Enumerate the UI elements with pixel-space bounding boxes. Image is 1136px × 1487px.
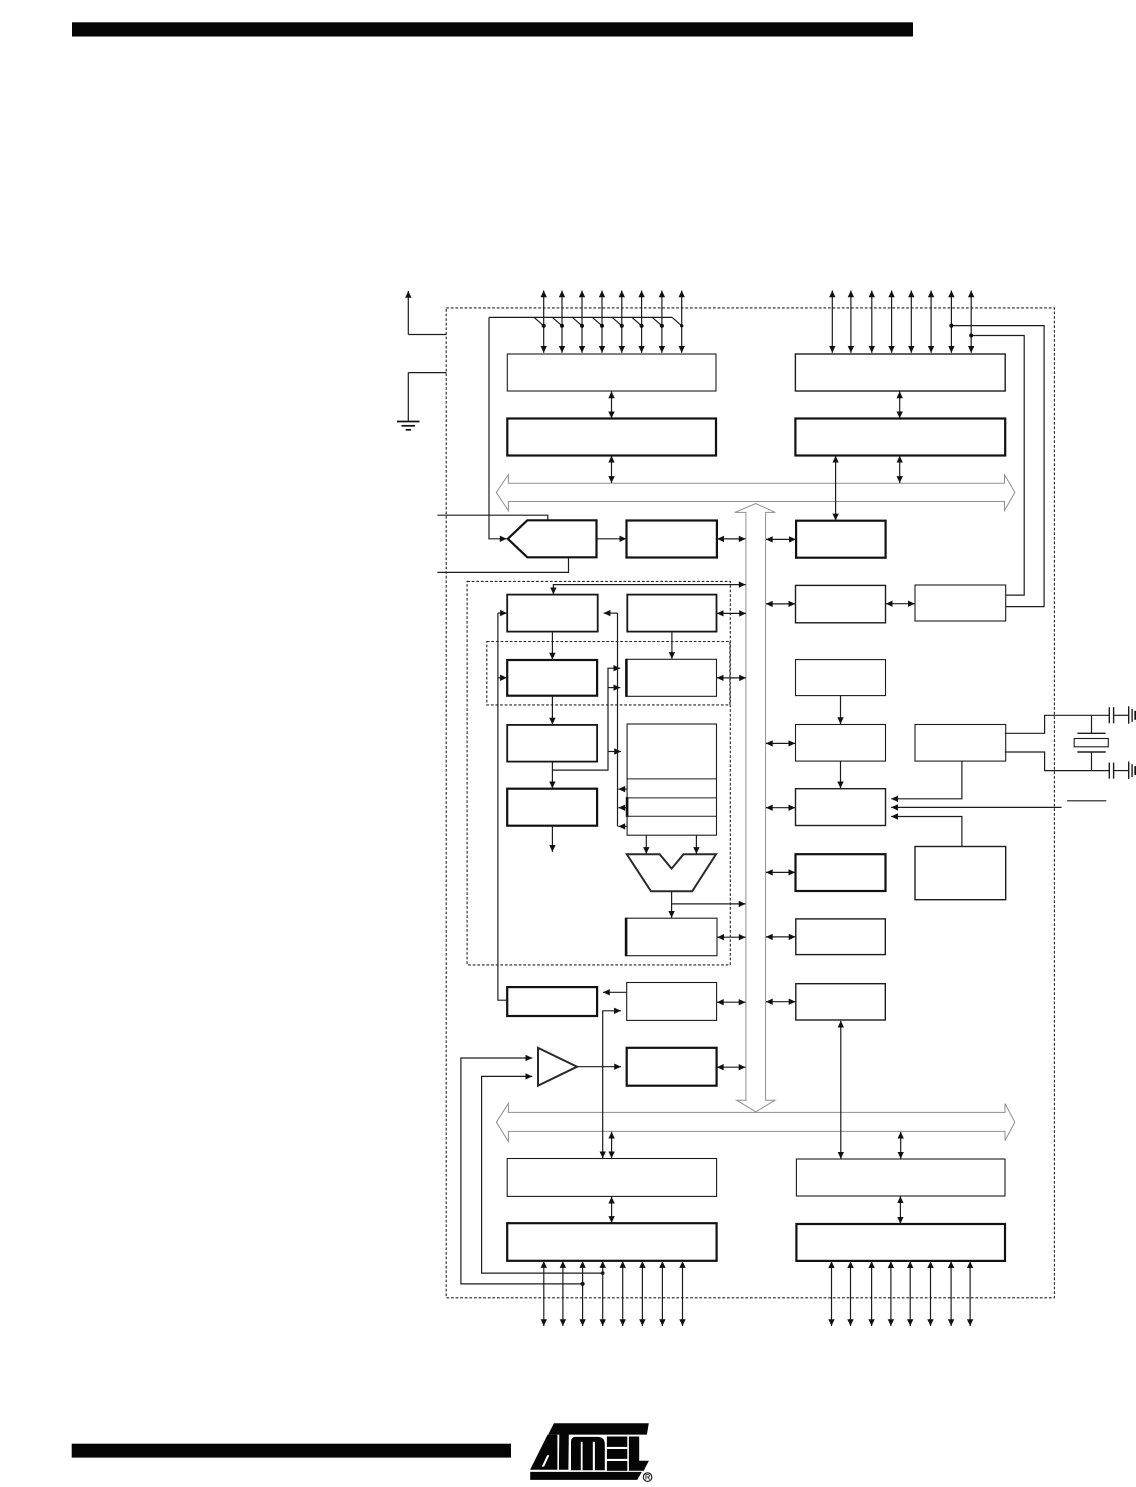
stack pointer to bus arrow [717,612,746,614]
Z register arrow [618,825,627,827]
program counter to bus wire [553,585,745,595]
RESET input wire [891,806,1061,808]
MCU status to MCU ctrl wire [891,817,962,847]
PORTA digital interface box [507,419,716,456]
oscillator (TOSC) box [915,585,1006,621]
ground for C1 [1128,706,1130,723]
PA0-PA7 pin arrows [543,291,545,353]
status register to bus arrow [717,936,745,938]
TOSC2 wire from PC7 [971,336,1024,596]
PORTA drivers/buffers box [507,354,716,391]
analog comparator triangle [538,1048,577,1086]
USART box [796,984,886,1020]
analog mux feed wire [489,317,507,538]
bus to USART arrow [766,1001,796,1003]
comparator output arrow [577,1066,621,1068]
internal SRAM box [626,659,716,696]
SPI to bus arrow [717,1001,746,1003]
PORTD drivers/buffers box [796,1224,1005,1261]
bus to watchdog arrow [766,742,795,744]
arrow into program flash left [498,677,507,679]
PC0-PC7 pin arrows [831,291,833,353]
MCU ctrl and timing box [796,789,886,826]
mux/adc to ADC interface arrow [597,538,626,540]
comparator positive input wire [461,1058,583,1284]
bus to PORTB interface arrow [611,1132,613,1159]
interrupt unit box [796,854,886,891]
AVCC pin arrow [408,334,446,336]
SPI to programming logic arrow [603,991,626,993]
registered trademark symbol [643,1473,652,1482]
timers/counters box [796,585,886,622]
EEPROM box [796,919,886,955]
analog ground wire [408,372,446,374]
SPI to PORTB wire [603,1011,621,1158]
ADC interface to bus arrow [717,538,745,540]
MUX and ADC chevron [508,520,597,557]
bus to EEPROM arrow [766,936,796,938]
bus to TWI arrow [766,538,796,540]
stack pointer box [627,595,716,632]
watchdog timer box [796,725,886,762]
direct addressing wire to SRAM [553,668,621,770]
flash to instruction register arrow [551,696,553,725]
bus to PORTD interface arrow [900,1132,902,1159]
instruction decoder box [507,789,597,826]
programming logic feedback wire [498,613,507,1000]
dashed memory region (flash/sram) [487,642,730,705]
program counter box [507,595,598,632]
comparator negative input wire [482,1076,603,1273]
instruction register box [507,725,597,762]
capacitor C1 [1108,707,1110,723]
USART to PORTD wire [840,1021,842,1159]
arrow into program counter right [604,612,618,614]
program counter to flash arrow [551,632,553,660]
crystal symbol [1091,715,1093,733]
bus to timers/counters arrow [766,603,795,605]
Y register arrow [618,807,627,809]
watchdog to MCU ctrl arrow [840,761,842,788]
comparator interface box [627,1048,717,1086]
control lines arrow [551,826,553,852]
PORTA drivers to interface arrow [611,391,613,418]
PORTC drivers to interface arrow [899,391,901,418]
ground symbol [397,421,420,423]
PORTD interface to drivers arrow [899,1196,901,1223]
MCU status register box [915,847,1006,900]
capacitor C2 [1108,763,1110,779]
ground for C2 [1128,762,1130,779]
X register arrow [618,788,627,790]
arrow into program counter left [498,612,507,614]
second arrow into SRAM left [608,687,620,689]
PORTB drivers/buffers box [507,1223,716,1261]
ALU to bus arrow [672,903,746,905]
XTAL1 wire [1005,715,1109,733]
top title bar [72,22,913,36]
ALU to status register arrow [671,892,673,918]
central vertical data bus (open arrow) [735,504,776,1112]
AREF stub wire [437,515,547,520]
TOSC1 wire from PC6 [951,326,1044,607]
registers to ALU arrows [645,836,647,854]
ADC interface box [627,521,717,558]
status register box [626,918,717,956]
programming logic box [507,987,597,1016]
bottom rule bar [72,1444,511,1458]
oscillator (XTAL) box [915,725,1006,762]
PB0-PB7 pin arrows [543,1261,545,1326]
program flash box [507,660,597,696]
Atmel logo A counter [542,1455,550,1466]
PORTD digital interface box [796,1159,1005,1196]
timers to oscillator arrow [886,603,915,605]
arrow into general registers left [608,751,621,753]
SRAM to bus arrow [717,677,746,679]
instruction register to decoder arrow [551,762,553,788]
ALU funnel [627,854,716,891]
comparator interface to bus arrow [717,1066,746,1068]
PORTA pickup junction dots [542,324,546,328]
RESET overline [1067,800,1106,802]
PORTA analog pickup line [489,316,672,318]
general purpose registers box [627,724,716,835]
PORTB digital interface box [507,1159,716,1197]
PORTC interface to data bus arrow [899,456,901,483]
8-bit data bus (upper horizontal open arrow) [496,475,1015,511]
internal oscillator box [796,660,886,696]
internal oscillator to watchdog arrow [840,696,842,724]
bus to interrupt unit arrow [766,871,795,873]
SPI box [627,983,717,1021]
oscillator to MCU ctrl wire [891,761,962,798]
Atmel logo [530,1423,649,1480]
XTAL2 wire [1005,752,1109,771]
PORTC drivers/buffers box [795,354,1005,391]
indirect addressing vertical wire [617,613,619,826]
PORTC digital interface box [795,419,1005,456]
PORTB interface to drivers arrow [611,1197,613,1223]
PD0-PD7 pin arrows [831,1261,833,1326]
PORTA interface to data bus arrow [611,456,613,483]
stack pointer to SRAM arrow [671,632,673,659]
PORTC interface to TWI arrow [835,456,837,521]
analog ground stub wire [437,558,568,573]
8-bit data bus (lower horizontal open arrow) [496,1103,1014,1141]
bus to MCU ctrl arrow [766,807,795,809]
TWI box [796,521,886,558]
outer dashed chip boundary [446,308,1054,1298]
dashed AVR CPU region [467,581,730,965]
